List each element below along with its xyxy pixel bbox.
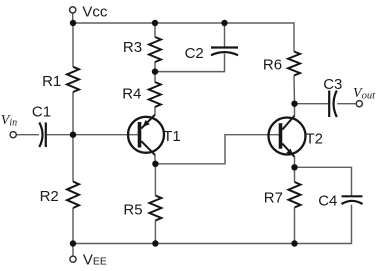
resistor R7 xyxy=(289,182,301,208)
svg-text:R2: R2 xyxy=(40,188,59,205)
wire R7 bottom stub xyxy=(294,208,296,244)
node T2 emitter / R7 / C4 xyxy=(291,164,297,170)
terminal Vin xyxy=(10,132,16,138)
wire R2 bottom stub xyxy=(72,208,74,244)
wire R5 top stub xyxy=(154,164,156,196)
resistor R2 xyxy=(67,182,79,209)
wire C1 to T1 base xyxy=(47,134,138,136)
svg-text:T2: T2 xyxy=(306,131,324,148)
wire T2 collector stub xyxy=(294,104,296,116)
wire R4 to T1 emitter xyxy=(154,107,156,115)
wire top Vcc rail xyxy=(73,23,294,52)
wire T2 emitter stub xyxy=(294,157,296,168)
node input (C1/R1/R2/T1 base) xyxy=(70,132,76,138)
svg-text:Vcc: Vcc xyxy=(82,3,108,20)
resistor R1 xyxy=(67,67,79,92)
svg-text:R1: R1 xyxy=(42,73,61,90)
node T1 collector / R5 xyxy=(152,161,158,167)
capacitor C2 xyxy=(211,48,238,56)
wire R3 top stub xyxy=(154,23,156,37)
terminal VEE xyxy=(70,256,76,262)
resistor R4 xyxy=(149,82,161,107)
node R5 bottom xyxy=(152,240,158,246)
resistor R3 xyxy=(149,37,161,62)
svg-text:C2: C2 xyxy=(185,45,204,62)
capacitor C1 xyxy=(39,123,46,148)
transistor T1 (PNP) xyxy=(128,115,164,155)
svg-text:C4: C4 xyxy=(318,192,337,209)
resistor R6 xyxy=(288,52,300,76)
wire VEE terminal stub xyxy=(72,244,74,257)
wire collector node to C3 xyxy=(295,103,329,105)
svg-text:R4: R4 xyxy=(122,86,141,103)
node T2 collector / R6 / C3 xyxy=(291,101,297,107)
svg-text:T1: T1 xyxy=(163,128,181,145)
wire Vcc terminal stub xyxy=(72,13,74,23)
wire T1 collector stub xyxy=(154,155,156,164)
svg-text:R3: R3 xyxy=(123,39,142,56)
wire R1 bottom to input node xyxy=(72,92,74,135)
svg-text:C3: C3 xyxy=(323,76,342,93)
capacitor C4 xyxy=(342,196,363,204)
node R3/R4/C2 xyxy=(152,68,158,74)
wire C2 bottom to R3/R4 node xyxy=(155,54,225,72)
wire R4 top stub xyxy=(154,72,156,82)
node C2 top xyxy=(221,20,227,26)
wire R2 top stub xyxy=(72,135,74,182)
capacitor C3 xyxy=(329,91,337,118)
svg-text:C1: C1 xyxy=(32,103,51,120)
svg-text:R7: R7 xyxy=(264,190,283,207)
node VEE rail xyxy=(70,240,76,246)
terminal Vcc xyxy=(70,7,76,13)
wire emitter node to C4 xyxy=(295,167,352,196)
svg-text:R6: R6 xyxy=(263,57,282,74)
wire R5 bottom stub xyxy=(154,221,156,244)
wire R1 top stub xyxy=(72,23,74,67)
wire R6 bottom to collector node xyxy=(293,76,296,104)
wire bottom VEE rail xyxy=(73,205,352,244)
wire C2 top stub xyxy=(224,23,226,47)
wire T1 collector to T2 base xyxy=(155,135,279,164)
wire C3 to Vout terminal xyxy=(337,103,356,105)
wire R7 top stub xyxy=(294,167,296,182)
wire Vin to C1 xyxy=(16,134,39,136)
node R3 top xyxy=(152,20,158,26)
terminal Vout xyxy=(356,101,362,107)
wire R3 bottom to node xyxy=(154,62,156,72)
svg-text:R5: R5 xyxy=(123,201,142,218)
transistor T2 (NPN) xyxy=(269,116,306,157)
node R7 bottom xyxy=(291,240,297,246)
node Vcc rail / R1 xyxy=(70,20,76,26)
resistor R5 xyxy=(149,196,161,221)
